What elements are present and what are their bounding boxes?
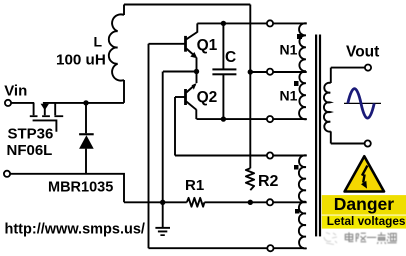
svg-text:NF06L: NF06L [7,142,53,159]
svg-text:C: C [225,49,236,66]
svg-text:Q2: Q2 [197,89,218,106]
svg-text:R1: R1 [185,177,204,194]
svg-text:STP36: STP36 [8,126,54,143]
svg-text:Vout: Vout [346,44,379,61]
svg-text:N1: N1 [280,88,298,104]
svg-text:Vin: Vin [4,83,27,100]
svg-text:N1: N1 [280,42,298,58]
svg-text:100 uH: 100 uH [56,52,106,69]
svg-text:Q1: Q1 [197,37,218,54]
svg-text:Danger: Danger [334,194,394,214]
svg-text:MBR1035: MBR1035 [48,180,113,196]
svg-text:R2: R2 [258,173,279,190]
svg-text:L: L [94,34,103,50]
svg-text:Letal voltages: Letal voltages [327,214,406,228]
svg-text:http://www.smps.us/: http://www.smps.us/ [5,222,145,238]
